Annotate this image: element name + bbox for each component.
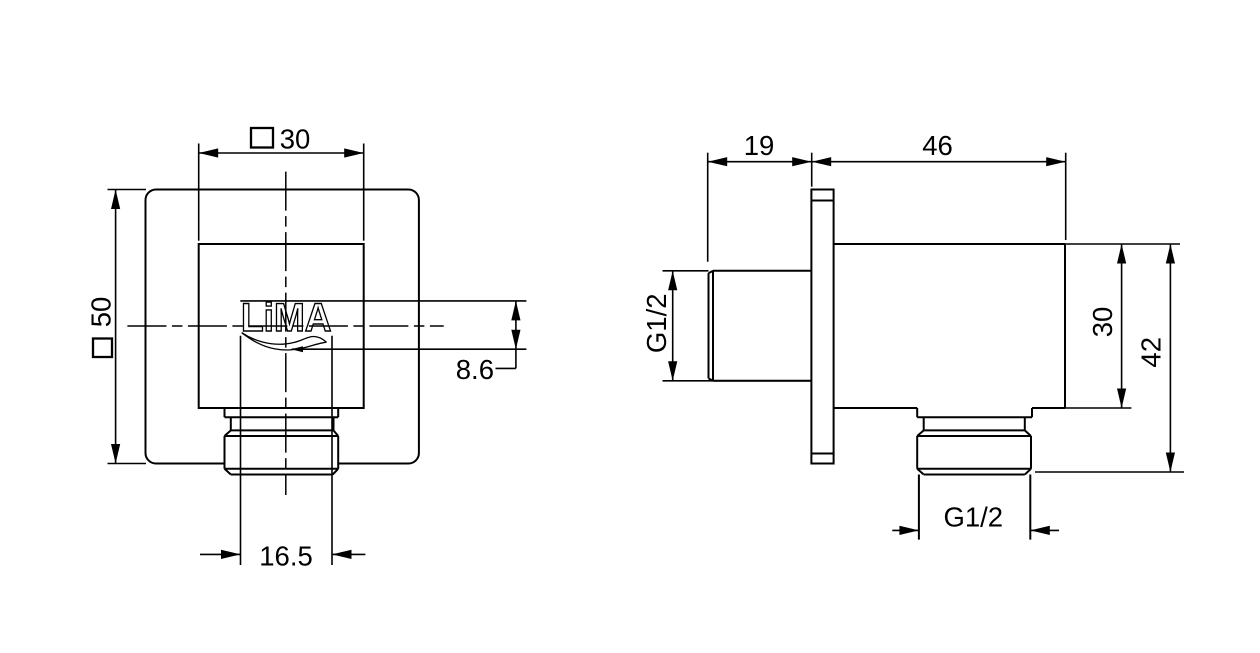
dimension 42 (total height, rotated)	[1035, 244, 1184, 472]
dimension 8.6 (logo height)	[240, 301, 526, 385]
front view body face (30x30 square)	[199, 244, 364, 408]
front view outlet step 1	[225, 408, 339, 417]
svg-text:G1/2: G1/2	[641, 293, 672, 353]
dimension 30 (body height, rotated)	[1056, 244, 1180, 408]
dimension G1/2 (inlet, left rotated)	[641, 271, 811, 381]
LiMA logo swoosh	[242, 333, 327, 350]
dimension 30 (top, front view)	[199, 124, 364, 241]
dimension 19 (plate offset)	[708, 130, 812, 262]
front view hex collar with chamfers	[225, 430, 339, 474]
svg-text:50: 50	[86, 297, 117, 328]
vertical centerline front view	[285, 172, 287, 495]
front view outlet thread lines / 16.5 extension lines	[241, 336, 333, 565]
dimension 16.5 (bottom, front view)	[200, 541, 365, 572]
svg-text:G1/2: G1/2	[943, 502, 1003, 533]
front view flange (50x50 rounded square)	[146, 190, 419, 464]
svg-text:30: 30	[1087, 307, 1118, 338]
LiMA logo (outlined letters)	[241, 296, 332, 340]
side view body block	[834, 244, 1065, 408]
horizontal centerline front view	[127, 325, 443, 327]
side view hex collar with chamfers	[917, 430, 1031, 474]
side view outlet step 2	[924, 417, 1025, 430]
svg-text:30: 30	[280, 124, 311, 155]
svg-text:8.6: 8.6	[456, 354, 494, 385]
side view outlet pipe below collar	[919, 475, 1030, 540]
dimension G1/2 (outlet, bottom)	[892, 502, 1059, 536]
svg-text:19: 19	[744, 130, 775, 161]
dimension 46 (body length)	[812, 130, 1066, 240]
side view outlet step 1	[917, 408, 1032, 417]
side view inlet pipe G1/2	[709, 271, 812, 381]
svg-text:42: 42	[1136, 337, 1167, 368]
side view wall plate	[811, 190, 833, 464]
svg-text:46: 46	[922, 130, 953, 161]
dimension 50 (left, front view)	[86, 190, 147, 464]
front view outlet step 2	[231, 417, 334, 430]
svg-text:16.5: 16.5	[259, 541, 313, 572]
